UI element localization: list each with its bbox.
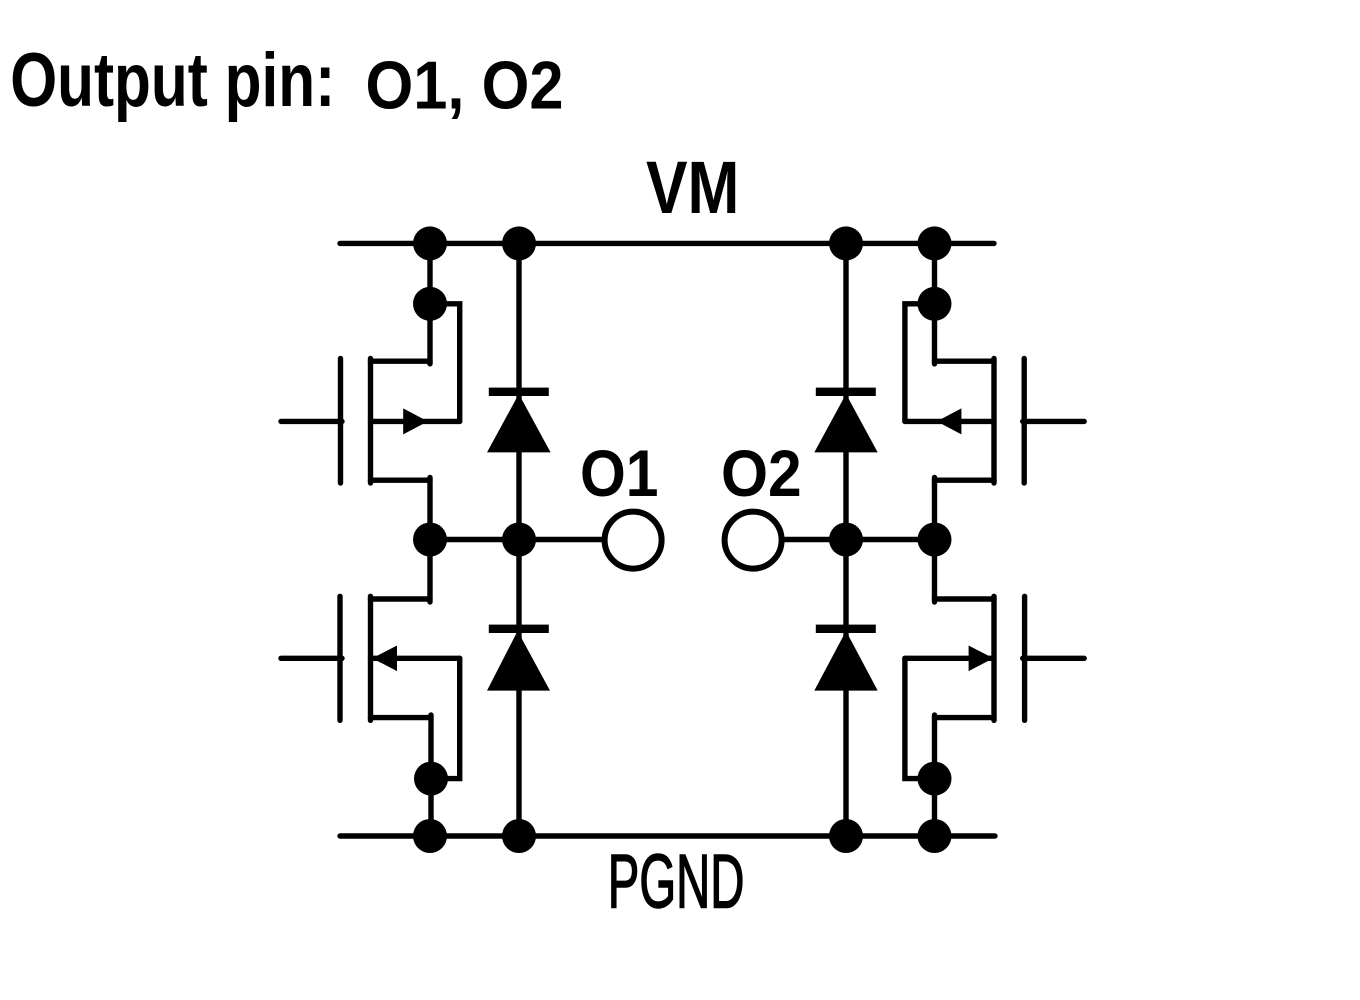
svg-text:PGND: PGND xyxy=(608,840,745,925)
svg-text:VM: VM xyxy=(646,146,739,229)
svg-text:O2: O2 xyxy=(721,436,802,510)
svg-text:O1, O2: O1, O2 xyxy=(366,49,564,124)
svg-text:O1: O1 xyxy=(580,436,659,510)
svg-text:Output pin:: Output pin: xyxy=(10,38,335,123)
